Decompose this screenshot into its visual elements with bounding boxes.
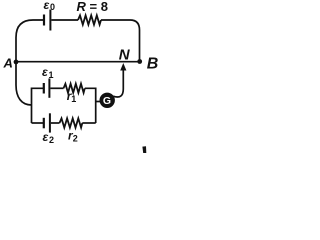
wire [51, 122, 60, 124]
node B [137, 59, 142, 64]
svg-text:ε: ε [43, 130, 49, 144]
wire [16, 62, 32, 105]
svg-text:R = 8: R = 8 [77, 0, 108, 14]
wire [16, 20, 43, 62]
cell E2 [44, 113, 50, 132]
wire [16, 61, 140, 63]
svg-text:G: G [103, 95, 111, 107]
wire [113, 67, 123, 97]
node A [14, 60, 19, 65]
svg-text:A: A [3, 56, 13, 71]
wire [85, 88, 96, 123]
svg-text:ε: ε [44, 0, 50, 12]
wire [32, 122, 44, 124]
cell E0 [44, 10, 50, 31]
wire [51, 19, 78, 21]
label E1 [42, 65, 54, 80]
resistor r2 [60, 118, 83, 127]
label r2 [68, 128, 78, 143]
svg-text:1: 1 [49, 70, 54, 80]
label E0 [44, 0, 56, 12]
svg-text:ε: ε [42, 65, 48, 79]
cell E1 [44, 79, 50, 98]
label E2 [43, 130, 55, 145]
resistor r1 [64, 84, 85, 93]
svg-text:N: N [119, 46, 131, 63]
resistor R [78, 15, 101, 24]
wire [101, 20, 140, 62]
svg-text:0: 0 [50, 2, 55, 12]
svg-text:1: 1 [71, 94, 76, 104]
wire [32, 88, 44, 123]
svg-text:2: 2 [73, 133, 78, 143]
arrow to node N [120, 63, 126, 71]
svg-text:2: 2 [49, 135, 54, 145]
wire [82, 122, 95, 124]
label r1 [67, 89, 77, 104]
text fragment b [142, 146, 146, 153]
wire [96, 101, 101, 103]
galvanometer G [100, 93, 115, 108]
wire [50, 87, 63, 89]
svg-text:B: B [147, 56, 159, 73]
